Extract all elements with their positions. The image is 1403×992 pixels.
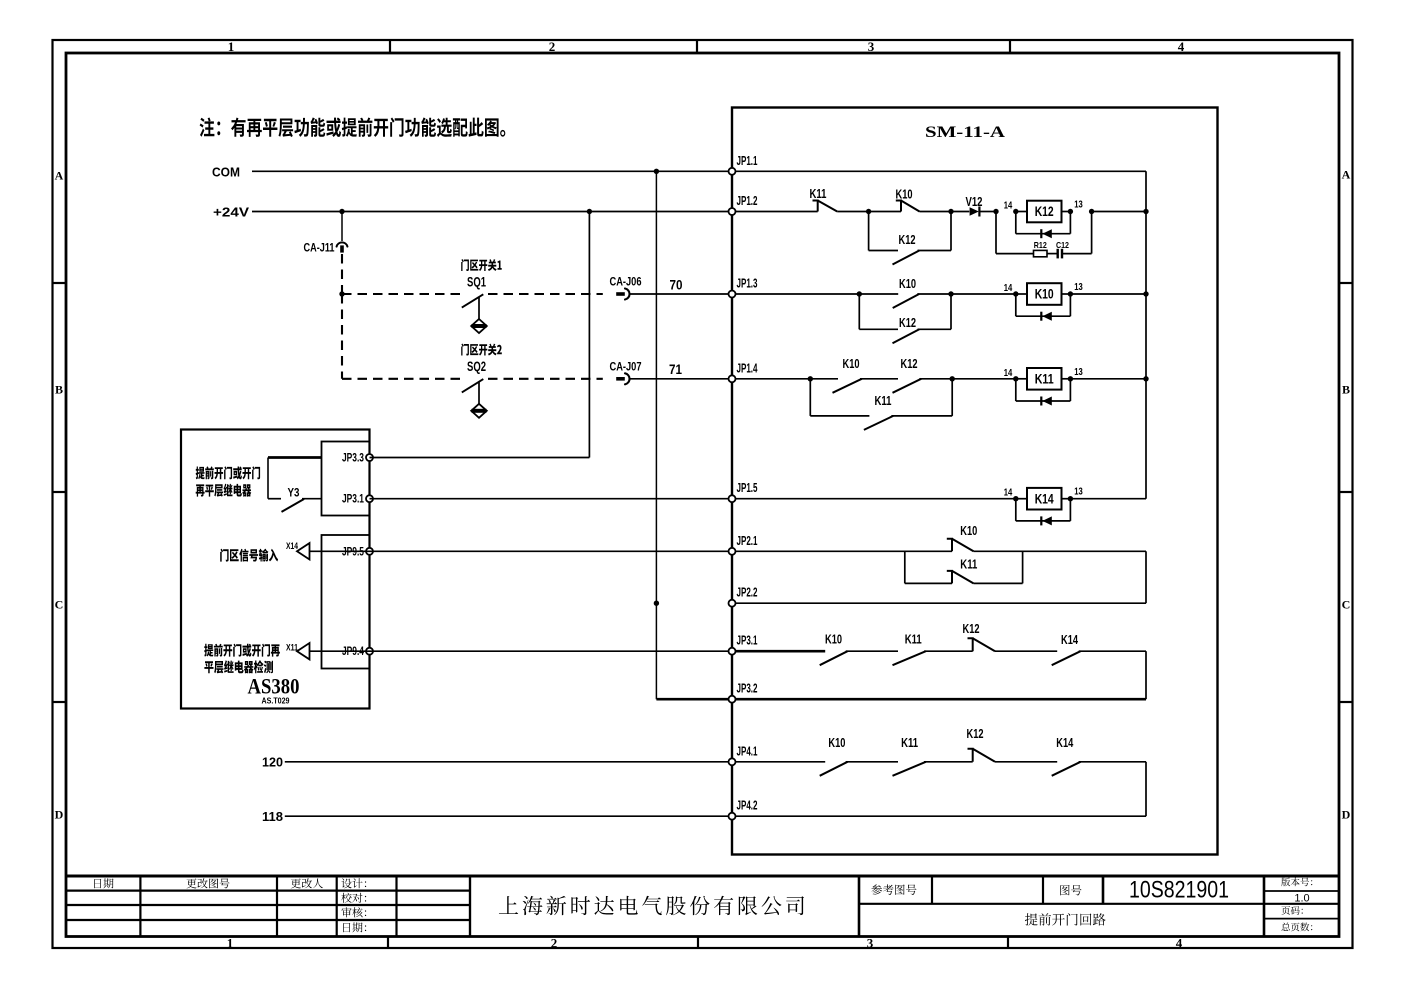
- title block right part: [858, 876, 861, 937]
- junction bypass right: [948, 291, 953, 296]
- SQ2 contact blade: [462, 379, 484, 392]
- svg-text:118: 118: [262, 810, 283, 824]
- junction bypass left: [808, 376, 813, 381]
- wire JP1.4 row: [732, 378, 810, 380]
- wire: [951, 211, 969, 213]
- svg-text:K14: K14: [1035, 490, 1054, 506]
- door-zone switch SQ2: [461, 344, 502, 356]
- svg-text:K12: K12: [899, 232, 916, 247]
- svg-text:K10: K10: [896, 187, 913, 202]
- svg-text:13: 13: [1074, 487, 1083, 498]
- svg-text:4: 4: [1176, 936, 1183, 951]
- svg-text:13: 13: [1074, 200, 1083, 211]
- wire +24V rail: [252, 211, 732, 213]
- svg-text:K11: K11: [875, 393, 892, 408]
- svg-text:K14: K14: [1056, 735, 1074, 750]
- wire coil to bus: [1070, 378, 1146, 380]
- svg-text:14: 14: [1004, 201, 1013, 212]
- wire: [919, 378, 952, 380]
- RC snubber branch of coil K12: [995, 212, 997, 254]
- wire Y3 vertical: [267, 458, 269, 499]
- controller AS380 box: [181, 430, 370, 709]
- frame zone ticks top: [389, 40, 391, 53]
- drawing no label: [1060, 885, 1081, 895]
- wire: [869, 211, 901, 213]
- capacitor C12: [1056, 249, 1058, 259]
- label relay for early door open: [196, 466, 260, 479]
- wire coil to bus: [1070, 293, 1146, 295]
- wire: [951, 293, 1016, 295]
- svg-text:B: B: [55, 383, 63, 397]
- wire JP9.5 to SM JP2.1: [370, 550, 733, 552]
- junction right bus JP1.3: [1143, 291, 1148, 296]
- svg-text:K12: K12: [899, 315, 916, 330]
- svg-text:K10: K10: [899, 276, 916, 291]
- svg-text:C: C: [55, 598, 64, 612]
- SQ1 contact blade: [462, 294, 484, 307]
- wire JP9.4 to SM JP3.1: [370, 650, 733, 652]
- wire CA-J06 to JP1.3: [630, 293, 732, 295]
- relay coil K10: [1013, 291, 1018, 296]
- wire bus to JP3.2: [656, 698, 732, 701]
- wire: [995, 761, 1057, 763]
- junction right bus JP1.4: [1143, 376, 1148, 381]
- svg-text:SQ1: SQ1: [467, 275, 486, 290]
- svg-text:X14: X14: [286, 541, 299, 552]
- svg-text:CA-J06: CA-J06: [610, 275, 642, 289]
- junction bypass right: [950, 376, 955, 381]
- svg-text:1: 1: [228, 39, 235, 54]
- door-zone switch SQ1: [461, 259, 502, 271]
- svg-text:JP3.3: JP3.3: [342, 453, 364, 465]
- junction on +24V at CA-J11: [339, 209, 344, 214]
- frame zone ticks bottom: [387, 937, 389, 949]
- svg-text:SM-11-A: SM-11-A: [925, 124, 1006, 141]
- svg-text:K12: K12: [967, 726, 984, 741]
- wire JP1.3 row: [732, 293, 859, 295]
- wire: [846, 650, 898, 652]
- title block outer: [66, 875, 1339, 878]
- wire right side down: [1145, 762, 1147, 816]
- svg-text:K11: K11: [960, 557, 977, 572]
- svg-text:K10: K10: [828, 735, 845, 750]
- wire dashed SQ2 to CA-J07: [488, 378, 603, 380]
- wire JP3.3 to +24V riser: [370, 457, 590, 459]
- svg-text:14: 14: [1004, 283, 1013, 294]
- svg-text:AS.T029: AS.T029: [262, 696, 290, 706]
- svg-text:14: 14: [1004, 488, 1013, 499]
- svg-text:K11: K11: [905, 632, 922, 647]
- wire coil to bus corner: [1070, 498, 1146, 500]
- svg-text:JP3.2: JP3.2: [737, 682, 758, 696]
- svg-text:B: B: [1342, 383, 1350, 397]
- wire JP4.1 row: [732, 761, 825, 763]
- svg-text:3: 3: [868, 39, 875, 54]
- frame zone ticks right: [1339, 282, 1353, 284]
- svg-text:A: A: [1342, 168, 1351, 182]
- svg-text:K12: K12: [901, 356, 918, 371]
- wire: [924, 761, 973, 763]
- svg-text:10S821901: 10S821901: [1129, 877, 1229, 904]
- wire: [924, 650, 973, 652]
- svg-text:COM: COM: [212, 166, 240, 180]
- junction COM to bus: [654, 169, 659, 174]
- revision table: [139, 876, 141, 937]
- svg-text:D: D: [1342, 808, 1351, 822]
- SQ2 magnet actuator: [478, 382, 480, 404]
- svg-text:K14: K14: [1061, 632, 1079, 647]
- svg-text:13: 13: [1074, 367, 1083, 378]
- wire JP1.5 row: [732, 498, 1016, 500]
- svg-text:CA-J11: CA-J11: [304, 241, 335, 255]
- svg-text:JP1.5: JP1.5: [737, 481, 758, 495]
- wire coil to bus: [1092, 211, 1146, 213]
- label relay detect: [204, 644, 280, 657]
- junction bypass left: [857, 291, 862, 296]
- svg-text:SQ2: SQ2: [467, 359, 486, 374]
- wire dashed to SQ2: [342, 378, 462, 380]
- wire JP3.2 row thick: [732, 698, 1146, 701]
- svg-text:C12: C12: [1056, 240, 1069, 250]
- svg-text:K10: K10: [825, 632, 842, 647]
- svg-text:C: C: [1342, 598, 1351, 612]
- wire X11 to JP9.4: [310, 650, 370, 652]
- wire: [917, 293, 951, 295]
- wire JP2.2 row: [732, 602, 1146, 604]
- svg-text:JP2.1: JP2.1: [737, 534, 758, 548]
- freewheel diode across K12: [1015, 212, 1017, 234]
- junction right bus JP1.2: [1143, 209, 1148, 214]
- revision table headers: [94, 878, 113, 888]
- svg-text:JP1.1: JP1.1: [737, 154, 758, 168]
- svg-text:13: 13: [1074, 282, 1083, 293]
- wire: [974, 550, 1147, 552]
- svg-text:14: 14: [1004, 368, 1013, 379]
- svg-text:2: 2: [549, 39, 556, 54]
- freewheel diode across K14: [1015, 499, 1017, 521]
- svg-text:K11: K11: [901, 735, 918, 750]
- freewheel diode across K10: [1015, 294, 1017, 316]
- wire JP3.1 row thick: [732, 650, 825, 653]
- wire JP3.3 stub thick: [268, 456, 322, 459]
- wire COM rail: [252, 170, 732, 172]
- relay coil K14: [1013, 496, 1018, 501]
- svg-text:3: 3: [867, 936, 874, 951]
- svg-text:1.0: 1.0: [1294, 893, 1309, 905]
- svg-text:4: 4: [1178, 39, 1185, 54]
- freewheel diode across K11: [1015, 379, 1017, 401]
- wire X14 to JP9.5: [310, 550, 370, 552]
- relay coil K11: [1013, 376, 1018, 381]
- junction bypass right: [948, 209, 953, 214]
- svg-text:K10: K10: [1035, 286, 1054, 302]
- resistor R12: [1034, 250, 1048, 256]
- wire: [860, 378, 898, 380]
- wire dashed CA-J11 drop: [341, 254, 343, 294]
- junction on +24V at JP3.3 riser: [587, 209, 592, 214]
- sheet title: [1025, 913, 1106, 926]
- frame zone ticks left: [53, 282, 67, 284]
- svg-text:K11: K11: [1035, 370, 1054, 386]
- wire dashed to SQ1: [342, 293, 462, 295]
- svg-text:JP2.2: JP2.2: [737, 586, 758, 600]
- wire: [920, 211, 952, 213]
- svg-text:120: 120: [262, 756, 283, 770]
- SQ1 magnet actuator: [478, 298, 480, 320]
- svg-text:K11: K11: [810, 186, 827, 201]
- svg-text:+24V: +24V: [213, 206, 250, 220]
- wire: [995, 650, 1057, 652]
- wire: [1079, 761, 1146, 763]
- svg-text:JP4.1: JP4.1: [737, 744, 758, 758]
- wire: [810, 378, 838, 380]
- wire: [859, 293, 898, 295]
- wire JP1.1 to right bus: [732, 170, 1146, 172]
- svg-text:JP1.2: JP1.2: [737, 194, 758, 208]
- svg-text:K10: K10: [843, 356, 860, 371]
- svg-text:K10: K10: [960, 523, 977, 538]
- svg-text:K12: K12: [963, 621, 980, 636]
- svg-text:K12: K12: [1035, 203, 1054, 219]
- wire: [837, 211, 868, 213]
- wire: [1079, 650, 1146, 652]
- wire: [952, 378, 1016, 380]
- wire dashed down to SQ2 row: [341, 294, 343, 379]
- wire 120 to JP4.1: [285, 761, 732, 763]
- svg-text:70: 70: [670, 277, 683, 293]
- reference drawing no label: [871, 884, 916, 895]
- wire CA-J07 to JP1.4: [630, 378, 732, 380]
- wire dashed SQ1 to CA-J06: [488, 293, 603, 295]
- junction bus to JP2.2: [654, 601, 659, 606]
- junction bypass left: [866, 209, 871, 214]
- note text: [200, 118, 506, 138]
- wire right COM bus vertical: [1145, 171, 1147, 498]
- wire: [980, 211, 996, 213]
- wire AS380 JP3.1 to SM JP1.5: [370, 498, 733, 500]
- wire right side down: [1145, 551, 1147, 603]
- wire right side down: [1145, 651, 1147, 699]
- version label: [1264, 890, 1339, 892]
- svg-text:71: 71: [669, 361, 682, 377]
- label door zone signal input: [220, 549, 278, 562]
- wire JP1.2 row: [732, 211, 818, 213]
- svg-text:Y3: Y3: [288, 488, 300, 500]
- AS380 connector block JP9: [322, 535, 370, 669]
- svg-text:CA-J07: CA-J07: [610, 360, 642, 374]
- svg-text:JP1.3: JP1.3: [737, 277, 758, 291]
- svg-text:2: 2: [551, 936, 558, 951]
- company name cell: [469, 876, 471, 937]
- svg-text:JP3.1: JP3.1: [737, 634, 758, 648]
- svg-text:JP3.1: JP3.1: [342, 494, 364, 506]
- wire JP2.1 row: [732, 550, 952, 552]
- svg-text:JP4.2: JP4.2: [737, 799, 758, 813]
- AS380 connector block JP3: [322, 442, 370, 516]
- wire: [846, 761, 898, 763]
- relay coil K12: [1013, 209, 1018, 214]
- wire COM bus vertical: [655, 171, 657, 699]
- svg-text:JP9.4: JP9.4: [342, 646, 364, 658]
- controller box SM-11-A: [732, 108, 1218, 855]
- wire 118 to JP4.2: [285, 815, 732, 817]
- wire JP4.2 row: [732, 815, 1146, 817]
- svg-text:D: D: [55, 808, 64, 822]
- svg-text:1: 1: [227, 936, 234, 951]
- svg-text:JP9.5: JP9.5: [342, 546, 364, 558]
- page fields: [1264, 918, 1339, 920]
- svg-text:JP1.4: JP1.4: [737, 361, 758, 375]
- svg-text:R12: R12: [1034, 240, 1047, 250]
- svg-text:A: A: [55, 169, 64, 183]
- junction dashed at SQ1 row: [339, 291, 344, 296]
